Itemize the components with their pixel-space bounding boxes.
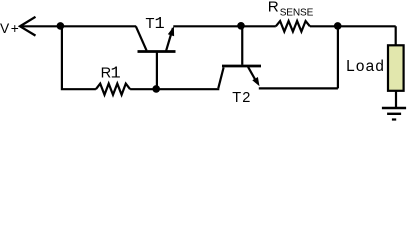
svg-text:R: R (268, 0, 279, 16)
load box (388, 45, 404, 91)
svg-text:T1: T1 (146, 15, 165, 34)
svg-text:R1: R1 (101, 65, 121, 84)
wire R1 to T2 collector (130, 88, 219, 90)
node junction dot T1 base (152, 85, 160, 93)
node junction dot Rsense output (334, 22, 342, 30)
T2 emitter lead (248, 67, 256, 81)
T2 emitter arrowhead (252, 77, 259, 86)
T1 emitter lead (166, 28, 173, 51)
T2 collector lead (218, 68, 223, 89)
svg-text:Load: Load (346, 58, 385, 75)
T2 base bar (222, 65, 261, 68)
T1 base lead (156, 52, 158, 90)
wire top rail V+ to T1 collector (20, 25, 136, 27)
wire T2 emitter to load bottom branch (259, 26, 338, 88)
resistor RSENSE (276, 21, 310, 32)
ground (382, 108, 406, 120)
transistor T1 (136, 26, 176, 89)
wire Rsense to load (310, 26, 396, 44)
transistor T2 (218, 26, 261, 88)
svg-text:T2: T2 (232, 90, 251, 106)
node junction dot V+ rail (57, 22, 65, 30)
node junction dot T2 base (237, 22, 245, 30)
svg-text:SENSE: SENSE (280, 8, 314, 19)
wire V+ branch down-left to R1 (61, 26, 96, 89)
wire load to ground (395, 91, 397, 108)
T1 collector lead (136, 26, 147, 50)
wire T1 emitter to Rsense (173, 25, 275, 27)
svg-text:V+: V+ (0, 21, 20, 36)
V+ input arrow (20, 17, 36, 36)
resistor R1 (96, 84, 130, 95)
T2 base lead (241, 26, 243, 65)
T1 base bar (138, 50, 176, 53)
T1 emitter arrowhead (168, 26, 174, 36)
